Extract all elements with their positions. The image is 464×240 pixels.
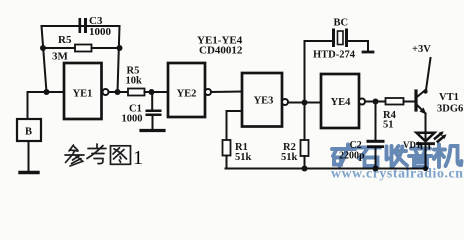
capacitor C3 [79,18,88,33]
wire: emitter down [425,114,427,134]
wire: loop right vertical [118,26,120,92]
resistor R4 [386,98,404,105]
node: piezo/R2 junction [302,100,308,106]
capacitor C2 [367,140,385,148]
node: C2 rail junction [373,166,379,172]
node: C2 junction [373,99,379,105]
svg-text:3M: 3M [52,51,69,63]
node: LED rail junction [423,166,428,171]
gate YE2 [168,63,205,117]
考 [87,144,106,159]
transistor VT1 [416,90,427,115]
piezo sounder BC [334,30,347,46]
LED VD1 [417,133,435,169]
node: R2 rail junction [302,166,308,172]
gate YE3 output bubble [282,99,288,105]
wire: loop left vertical [42,26,47,92]
svg-text:1: 1 [133,147,143,169]
capacitor C1 [146,110,162,117]
wire: B to ground [28,141,30,171]
wire: C2 top lead [375,102,377,140]
wire: C1 bottom lead [152,116,154,129]
wire: R5 3M right lead [92,47,120,49]
参 [69,145,78,151]
svg-text:YE1: YE1 [73,89,93,100]
wire: piezo right lead [348,41,368,51]
ground (piezo) [363,51,373,54]
svg-text:3DG6: 3DG6 [437,104,463,115]
svg-text:+3V: +3V [412,44,431,55]
svg-text:YE3: YE3 [254,96,274,107]
node: YE1 output junction [115,89,121,95]
svg-text:BC: BC [334,18,349,29]
gate YE3 [242,73,282,127]
wire: feedback loop top (C3 branch) [42,25,120,27]
node: loop right junction [117,45,123,51]
svg-text:R5: R5 [58,34,72,46]
node: C1 junction [149,89,155,95]
音 [409,144,432,167]
gate YE4 [321,74,359,128]
wire: R1 to rail [226,156,228,169]
gate YE1 [64,63,102,119]
svg-text:CD40012: CD40012 [199,45,243,57]
gate YE1 output bubble [103,89,109,95]
resistor R5 10k [128,89,145,96]
ground (C1) [141,129,164,132]
resistor R1 [223,140,231,156]
wire: C1 top lead [151,92,153,109]
svg-text:YE4: YE4 [331,97,352,108]
resistor R5 3M [75,45,92,52]
watermark [331,144,464,181]
wire: bottom rail [226,168,426,170]
图 [111,146,131,165]
svg-text:www.crystalradio.cn: www.crystalradio.cn [331,166,464,181]
gate YE2 output bubble [205,89,211,95]
svg-text:51k: 51k [235,152,252,163]
wire: R2 to rail [304,156,306,169]
wire: C2 bottom lead [375,148,377,169]
wire: to B box [28,92,47,119]
wire: YE2 to YE3 [211,91,242,94]
svg-text:YE2: YE2 [177,89,197,100]
resistor R2 [301,140,309,156]
wire: piezo left lead [305,40,332,42]
wire: piezo/R2 vertical [304,41,306,140]
ground (B) [20,171,38,174]
node: YE1 input junction [44,89,50,95]
svg-text:B: B [25,127,32,138]
wire: YE3 lower input [227,111,243,140]
svg-text:10k: 10k [126,76,143,87]
wire: R4 to base [404,101,415,103]
component B (box) [17,119,41,141]
机 [434,145,445,168]
LED light arrows [435,131,447,141]
node: loop left junction [40,45,46,51]
wire: R5 3M left lead [43,47,75,49]
收 [387,146,392,167]
svg-text:1000: 1000 [122,114,143,125]
gate YE4 output bubble [359,99,365,105]
svg-text:51: 51 [383,120,394,131]
node: collector blob [423,89,427,93]
svg-text:51k: 51k [281,152,298,163]
wire: collector to +3V [426,58,431,90]
svg-text:1000: 1000 [89,26,112,38]
wire: YE1 output [109,91,129,93]
svg-text:HTD-274: HTD-274 [313,50,356,61]
svg-text:VT1: VT1 [439,92,459,103]
wire: YE4 output [365,101,386,103]
石 [358,148,380,167]
wire: R5 10k to YE2 [145,91,169,93]
wire: YE1 input [47,91,65,93]
wire: YE3 to YE4 [288,102,321,104]
矿 [332,149,341,165]
caption 参考图1 (hand-drawn) [65,144,131,166]
